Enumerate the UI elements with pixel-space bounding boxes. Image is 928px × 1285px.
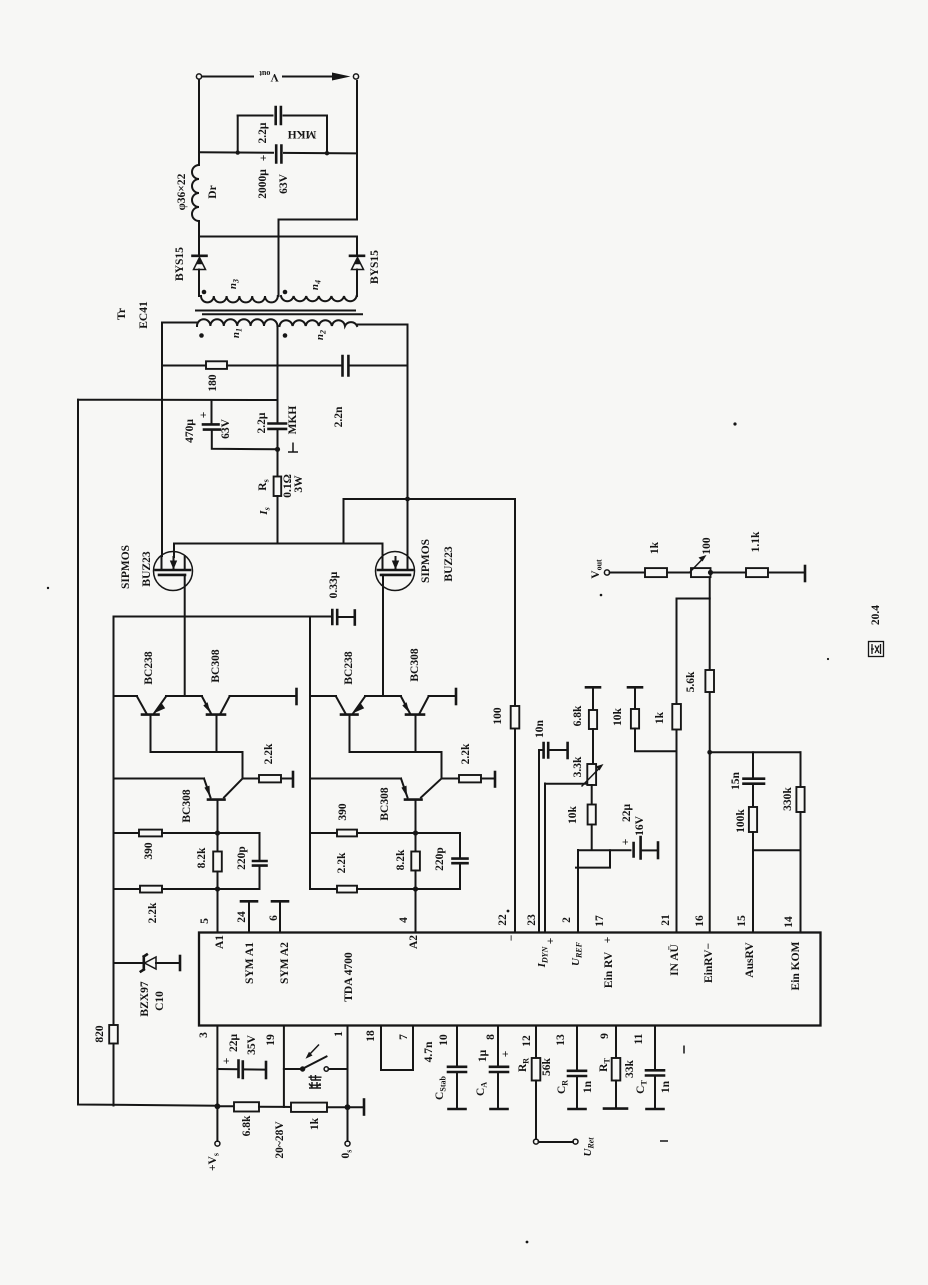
svg-text:2.2μ: 2.2μ bbox=[257, 122, 269, 143]
svg-text:220p: 220p bbox=[434, 847, 446, 871]
svg-text:1.1k: 1.1k bbox=[750, 531, 762, 552]
svg-text:2.2n: 2.2n bbox=[333, 406, 345, 427]
svg-text:8.2k: 8.2k bbox=[395, 849, 407, 870]
svg-text:6.8k: 6.8k bbox=[241, 1115, 253, 1136]
svg-text:BC238: BC238 bbox=[343, 651, 355, 684]
svg-text:3.3k: 3.3k bbox=[572, 756, 584, 777]
svg-text:10k: 10k bbox=[612, 707, 624, 726]
svg-text:+: + bbox=[258, 155, 270, 162]
svg-text:φ36×22: φ36×22 bbox=[176, 173, 188, 210]
svg-text:8: 8 bbox=[485, 1034, 497, 1040]
svg-text:BC308: BC308 bbox=[409, 648, 421, 681]
svg-text:BZX97: BZX97 bbox=[139, 981, 151, 1016]
svg-text:SIPMOS: SIPMOS bbox=[420, 539, 432, 583]
svg-text:100: 100 bbox=[492, 707, 504, 725]
svg-text:2.2k: 2.2k bbox=[147, 902, 159, 923]
svg-text:390: 390 bbox=[337, 803, 349, 821]
svg-text:Ein RV: Ein RV bbox=[603, 951, 615, 988]
svg-text:1n: 1n bbox=[660, 1080, 672, 1093]
svg-text:MKH: MKH bbox=[287, 406, 299, 435]
svg-text:35V: 35V bbox=[246, 1034, 258, 1055]
svg-text:16V: 16V bbox=[634, 815, 646, 836]
svg-text:+: + bbox=[198, 412, 210, 419]
svg-text:15n: 15n bbox=[730, 771, 742, 790]
svg-text:33k: 33k bbox=[624, 1059, 636, 1078]
svg-text:1μ: 1μ bbox=[477, 1049, 489, 1062]
svg-text:15: 15 bbox=[736, 915, 748, 927]
svg-text:10k: 10k bbox=[567, 805, 579, 824]
svg-text:1n: 1n bbox=[582, 1080, 594, 1093]
svg-text:21: 21 bbox=[660, 914, 672, 926]
svg-text:63V: 63V bbox=[278, 173, 290, 194]
svg-text:BUZ23: BUZ23 bbox=[141, 551, 153, 586]
svg-text:6.8k: 6.8k bbox=[572, 705, 584, 726]
svg-text:TDA 4700: TDA 4700 bbox=[343, 952, 355, 1002]
svg-text:330k: 330k bbox=[782, 787, 794, 811]
svg-text:SIPMOS: SIPMOS bbox=[120, 545, 132, 589]
svg-text:BC308: BC308 bbox=[181, 789, 193, 822]
svg-text:6: 6 bbox=[268, 915, 280, 921]
svg-text:100k: 100k bbox=[735, 809, 747, 833]
svg-text:2.2k: 2.2k bbox=[336, 852, 348, 873]
svg-text:5: 5 bbox=[199, 918, 211, 924]
svg-text:9: 9 bbox=[599, 1033, 611, 1039]
svg-text:1k: 1k bbox=[649, 541, 661, 554]
svg-text:18: 18 bbox=[365, 1030, 377, 1042]
svg-text:3: 3 bbox=[198, 1032, 210, 1038]
svg-text:IN AÜ: IN AÜ bbox=[667, 943, 681, 975]
svg-text:MKH: MKH bbox=[288, 128, 317, 140]
svg-text:63V: 63V bbox=[220, 418, 232, 439]
svg-text:11: 11 bbox=[633, 1033, 645, 1044]
svg-text:BYS15: BYS15 bbox=[369, 250, 381, 284]
svg-text:13: 13 bbox=[555, 1034, 567, 1046]
svg-text:56k: 56k bbox=[541, 1057, 553, 1076]
svg-text:+: + bbox=[545, 938, 557, 945]
svg-text:17: 17 bbox=[594, 915, 606, 927]
svg-text:3W: 3W bbox=[293, 475, 305, 493]
svg-text:7: 7 bbox=[398, 1034, 410, 1040]
svg-text:BYS15: BYS15 bbox=[174, 247, 186, 281]
svg-text:10n: 10n bbox=[534, 719, 546, 738]
svg-text:EC41: EC41 bbox=[138, 301, 150, 329]
svg-text:2: 2 bbox=[561, 917, 573, 923]
svg-text:2000μ: 2000μ bbox=[257, 169, 269, 199]
svg-text:Dr: Dr bbox=[207, 185, 219, 198]
svg-text:A1: A1 bbox=[214, 935, 226, 949]
svg-text:Tr: Tr bbox=[116, 308, 128, 320]
svg-text:220p: 220p bbox=[236, 846, 248, 870]
svg-text:BC308: BC308 bbox=[210, 649, 222, 682]
svg-text:−: − bbox=[506, 935, 518, 942]
svg-text:23: 23 bbox=[526, 914, 538, 926]
svg-text:BC238: BC238 bbox=[143, 651, 155, 684]
svg-text:19: 19 bbox=[265, 1034, 277, 1046]
svg-text:+: + bbox=[221, 1058, 233, 1065]
svg-text:A2: A2 bbox=[408, 935, 420, 949]
svg-text:12: 12 bbox=[521, 1035, 533, 1047]
svg-text:22: 22 bbox=[497, 914, 509, 926]
svg-text:390: 390 bbox=[143, 842, 155, 860]
svg-text:10: 10 bbox=[438, 1034, 450, 1046]
svg-text:0.33μ: 0.33μ bbox=[328, 571, 340, 598]
svg-text:5.6k: 5.6k bbox=[685, 671, 697, 692]
svg-text:BC308: BC308 bbox=[379, 787, 391, 820]
svg-text:AusRV: AusRV bbox=[744, 942, 756, 978]
svg-text:4.7n: 4.7n bbox=[423, 1041, 435, 1062]
svg-text:820: 820 bbox=[94, 1025, 106, 1043]
svg-text:SYM A1: SYM A1 bbox=[244, 942, 256, 984]
svg-text:16: 16 bbox=[694, 915, 706, 927]
svg-text:24: 24 bbox=[236, 911, 248, 923]
svg-text:+: + bbox=[620, 839, 632, 846]
svg-text:2.2μ: 2.2μ bbox=[256, 412, 268, 433]
svg-text:2.2k: 2.2k bbox=[460, 743, 472, 764]
svg-text:180: 180 bbox=[207, 374, 219, 392]
svg-text:SYM A2: SYM A2 bbox=[279, 942, 291, 984]
svg-text:1k: 1k bbox=[309, 1117, 321, 1130]
svg-text:20~28V: 20~28V bbox=[274, 1121, 286, 1159]
svg-text:1k: 1k bbox=[654, 711, 666, 724]
svg-text:1: 1 bbox=[333, 1031, 345, 1037]
svg-text:+: + bbox=[602, 937, 614, 944]
svg-text:+: + bbox=[500, 1051, 512, 1058]
svg-text:BUZ23: BUZ23 bbox=[443, 546, 455, 581]
svg-text:470μ: 470μ bbox=[184, 419, 196, 443]
svg-text:22μ: 22μ bbox=[228, 1034, 240, 1053]
svg-text:EinRV−: EinRV− bbox=[703, 943, 715, 983]
svg-text:Ein KOM: Ein KOM bbox=[790, 941, 802, 990]
svg-text:100: 100 bbox=[701, 537, 713, 555]
svg-text:14: 14 bbox=[783, 916, 795, 928]
svg-text:8.2k: 8.2k bbox=[196, 847, 208, 868]
svg-text:20.4: 20.4 bbox=[870, 605, 882, 625]
svg-text:22μ: 22μ bbox=[621, 804, 633, 823]
svg-text:4: 4 bbox=[398, 917, 410, 923]
svg-text:2.2k: 2.2k bbox=[263, 743, 275, 764]
svg-text:C10: C10 bbox=[154, 991, 166, 1011]
